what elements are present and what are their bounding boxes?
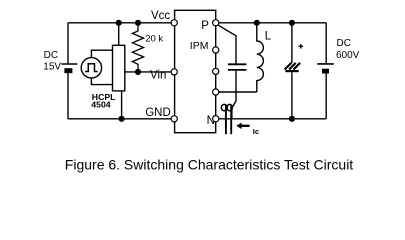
electrolytic capacitor C2 hatched plate [285,63,300,70]
svg-text:DC: DC [44,50,58,61]
pin 2 circle [213,47,219,53]
wire P to snubber cap diagonal [218,25,236,64]
svg-text:Vin: Vin [150,70,166,82]
node junction R1 bottom [135,69,141,75]
current probe CT loop 2 [230,105,232,134]
svg-text:IPM: IPM [190,40,209,52]
wire pulse-gen bottom loop [91,78,112,85]
battery BT1 15V negative plate [64,68,72,73]
wire output pin to L bottom [219,91,257,93]
wire bottom-left rail (to GND) [68,118,171,120]
pin N circle [213,116,219,122]
svg-text:Vcc: Vcc [151,10,170,22]
svg-text:P: P [201,20,209,32]
node junction opto-Vcc [116,20,122,26]
pin Vcc circle [171,20,177,26]
wire battery15 bottom lead [67,73,69,119]
pin P circle [213,20,219,26]
wire battery600 bottom lead [325,74,327,119]
capacitor C1 plates [228,64,247,70]
optocoupler U1 HCPL-4504 body [113,45,125,91]
node junction L top on P rail [254,20,260,26]
pin U output circle [213,89,219,95]
pin GND circle [171,116,177,122]
svg-text:Ic: Ic [253,127,259,136]
wire surge-absorber top lead [291,23,293,63]
battery BT2 600V negative plate [322,69,329,74]
pin 3 circle [213,68,219,74]
label + polarity [299,44,303,48]
node junction R1 top [135,20,141,26]
wire battery15 top lead [67,23,69,64]
wire C2 bottom lead [291,72,293,119]
resistor R1 20k zigzag [132,23,143,71]
battery BT1 15V positive plate [61,63,77,65]
svg-text:Figure 6. Switching Characteri: Figure 6. Switching Characteristics Test… [65,157,354,173]
IPM module U2 body [175,10,216,132]
wire pulse-gen top loop [91,50,112,57]
wire N rail [219,118,326,120]
wire opto top lead [118,23,120,46]
arrow Ic direction [241,125,250,127]
svg-text:4504: 4504 [91,99,110,109]
node junction opto-GND [119,116,125,122]
node junction C2 bottom on N rail [289,116,295,122]
wire battery600 top lead [325,23,327,63]
wire opto bottom lead [121,91,123,119]
svg-text:600V: 600V [336,50,360,61]
node junction surge-absorber top on P rail [289,20,295,26]
svg-text:15V: 15V [43,61,61,72]
svg-text:20 k: 20 k [145,34,163,45]
svg-text:GND: GND [145,107,171,119]
pulse generator waveform glyph [85,64,97,72]
electrolytic capacitor C2 bottom plate [285,70,298,72]
wire P rail [219,22,326,24]
pin Vin circle [171,69,177,75]
current probe CT loop 1 [225,105,227,134]
inductor L coil [257,23,264,92]
wire Vin (opto output to IPM) [125,71,171,73]
pulse generator V1 circle [81,58,101,78]
svg-text:DC: DC [337,38,351,49]
battery BT2 600V positive plate [317,63,334,65]
wire C1 bottom lead to N [232,71,236,119]
svg-text:L: L [265,31,272,43]
wire top-left rail (15V+ to Vcc) [68,22,171,24]
